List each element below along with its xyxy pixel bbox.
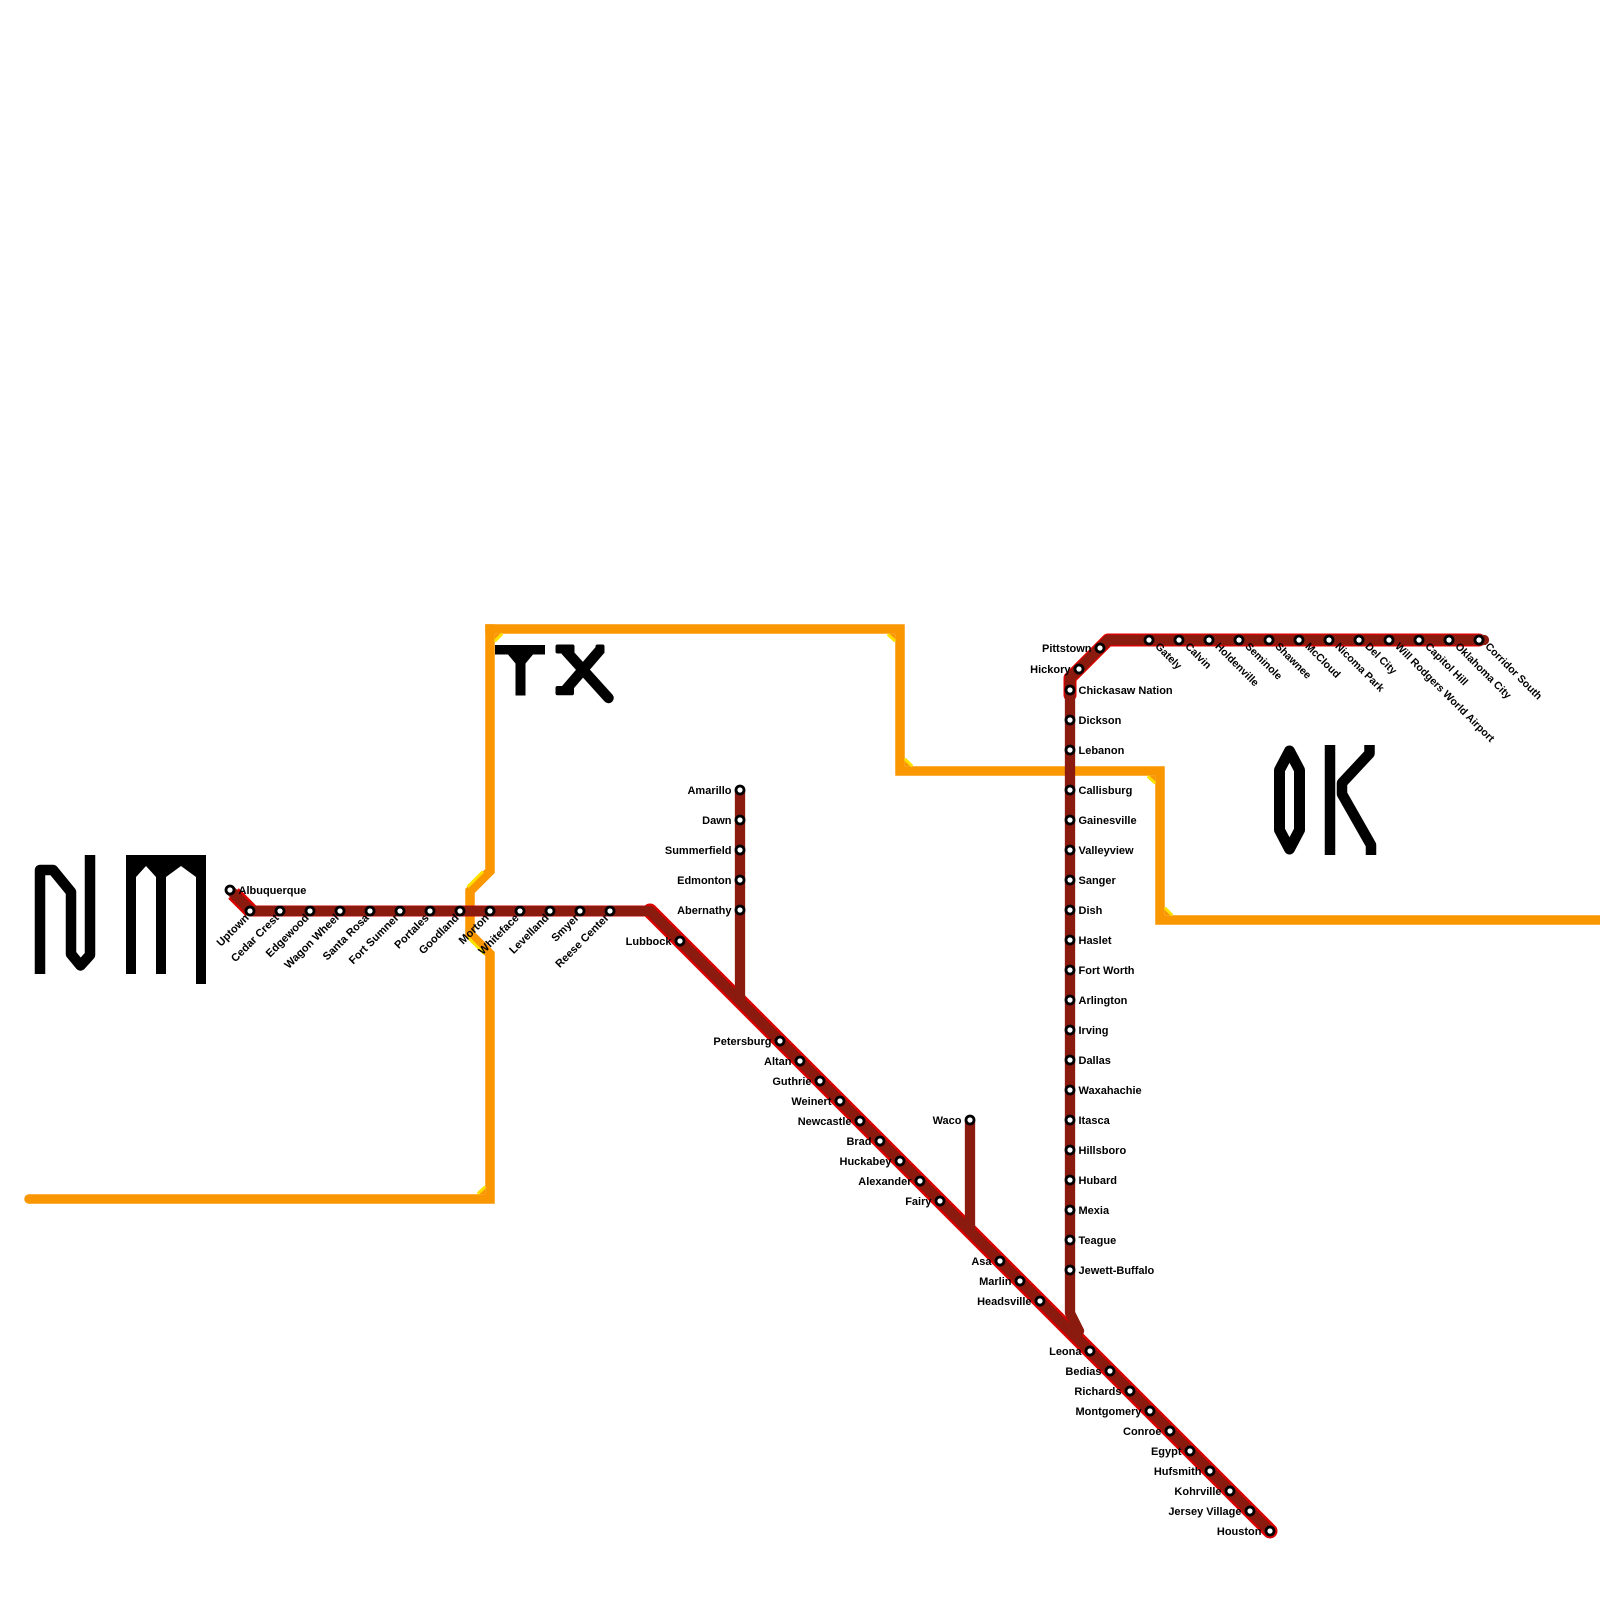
svg-text:Valleyview: Valleyview [1079, 845, 1134, 857]
svg-text:Conroe: Conroe [1123, 1426, 1162, 1438]
svg-text:Jewett-Buffalo: Jewett-Buffalo [1079, 1265, 1155, 1277]
svg-text:Weinert: Weinert [791, 1096, 831, 1108]
svg-text:Petersburg: Petersburg [713, 1036, 771, 1048]
svg-text:Fort Worth: Fort Worth [1079, 965, 1135, 977]
svg-text:Fairy: Fairy [905, 1196, 932, 1208]
svg-text:Alexander: Alexander [858, 1176, 912, 1188]
svg-text:Huckabey: Huckabey [840, 1156, 893, 1168]
svg-text:Itasca: Itasca [1079, 1115, 1111, 1127]
svg-text:Gainesville: Gainesville [1079, 815, 1137, 827]
svg-text:Dish: Dish [1079, 905, 1103, 917]
svg-text:Irving: Irving [1079, 1025, 1109, 1037]
svg-text:Headsville: Headsville [977, 1296, 1031, 1308]
svg-text:Hufsmith: Hufsmith [1154, 1466, 1202, 1478]
svg-text:Jersey Village: Jersey Village [1168, 1506, 1241, 1518]
svg-text:Dallas: Dallas [1079, 1055, 1111, 1067]
svg-text:Asa: Asa [971, 1256, 992, 1268]
svg-text:Dawn: Dawn [702, 815, 732, 827]
svg-text:Altan: Altan [764, 1056, 792, 1068]
svg-text:Montgomery: Montgomery [1076, 1406, 1143, 1418]
svg-text:Mexia: Mexia [1079, 1205, 1110, 1217]
svg-text:Sanger: Sanger [1079, 875, 1117, 887]
svg-text:Callisburg: Callisburg [1079, 785, 1133, 797]
svg-text:Marlin: Marlin [979, 1276, 1012, 1288]
svg-text:Lebanon: Lebanon [1079, 745, 1125, 757]
svg-text:Haslet: Haslet [1079, 935, 1112, 947]
svg-text:Houston: Houston [1217, 1526, 1262, 1538]
svg-text:Amarillo: Amarillo [687, 785, 731, 797]
svg-text:Waxahachie: Waxahachie [1079, 1085, 1142, 1097]
svg-text:Leona: Leona [1049, 1346, 1082, 1358]
svg-text:Lubbock: Lubbock [626, 936, 673, 948]
svg-text:Arlington: Arlington [1079, 995, 1128, 1007]
svg-text:Hubard: Hubard [1079, 1175, 1118, 1187]
svg-text:Teague: Teague [1079, 1235, 1117, 1247]
svg-text:Chickasaw Nation: Chickasaw Nation [1079, 685, 1173, 697]
svg-text:Edmonton: Edmonton [677, 875, 732, 887]
svg-text:Albuquerque: Albuquerque [239, 885, 307, 897]
svg-text:Hickory: Hickory [1030, 664, 1071, 676]
svg-text:Waco: Waco [933, 1115, 962, 1127]
svg-text:Hillsboro: Hillsboro [1079, 1145, 1127, 1157]
svg-text:Kohrville: Kohrville [1174, 1486, 1221, 1498]
svg-text:Guthrie: Guthrie [772, 1076, 811, 1088]
svg-text:Newcastle: Newcastle [798, 1116, 852, 1128]
svg-text:Abernathy: Abernathy [677, 905, 732, 917]
svg-text:Summerfield: Summerfield [665, 845, 732, 857]
svg-text:Richards: Richards [1074, 1386, 1121, 1398]
svg-text:Brad: Brad [846, 1136, 871, 1148]
svg-text:Bedias: Bedias [1065, 1366, 1101, 1378]
svg-text:Pittstown: Pittstown [1042, 643, 1092, 655]
svg-text:Dickson: Dickson [1079, 715, 1122, 727]
svg-text:Egypt: Egypt [1151, 1446, 1182, 1458]
